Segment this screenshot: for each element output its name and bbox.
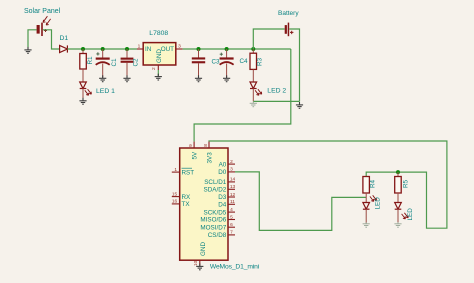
ground (C2) <box>123 75 130 81</box>
resistor R3 <box>250 49 257 82</box>
svg-text:Solar Panel: Solar Panel <box>24 8 61 15</box>
wire solar left to ground <box>28 30 37 47</box>
svg-text:Battery: Battery <box>278 10 299 17</box>
regulator U1 L7808 <box>137 43 183 70</box>
svg-text:R4: R4 <box>370 179 377 188</box>
svg-text:2: 2 <box>151 67 157 70</box>
svg-text:15: 15 <box>172 191 178 197</box>
svg-text:9: 9 <box>188 144 194 147</box>
svg-text:GND: GND <box>156 49 163 63</box>
svg-text:D4: D4 <box>218 202 227 209</box>
svg-text:1: 1 <box>174 167 177 173</box>
svg-text:3V3: 3V3 <box>206 152 213 164</box>
svg-text:LED: LED <box>407 208 414 221</box>
svg-text:14: 14 <box>230 177 236 183</box>
diode D1 <box>60 45 68 52</box>
ground (U2) <box>196 263 203 269</box>
solar panel PV1 <box>37 16 51 36</box>
svg-text:D0: D0 <box>218 169 227 176</box>
svg-text:R3: R3 <box>256 57 263 66</box>
svg-text:RX: RX <box>182 194 192 201</box>
svg-text:C4: C4 <box>240 58 249 65</box>
capacitor C3 <box>192 49 205 78</box>
capacitor C1 (polarized) <box>96 49 110 78</box>
wire rail diode to regulator IN <box>67 48 137 50</box>
svg-text:3: 3 <box>178 43 181 49</box>
wire D0 to LED chain <box>235 172 366 231</box>
svg-text:L7808: L7808 <box>149 30 168 37</box>
svg-text:LED: LED <box>375 197 382 210</box>
resistor R1 <box>80 49 87 82</box>
wire rail down to 5V feed <box>194 49 291 142</box>
svg-text:D1: D1 <box>60 35 69 42</box>
svg-text:C1: C1 <box>111 58 118 67</box>
pin name RST <box>182 168 195 176</box>
svg-text:6: 6 <box>230 222 233 228</box>
svg-text:1: 1 <box>138 43 141 49</box>
LED D3 (LED 2) <box>250 82 262 95</box>
svg-text:WeMos_D1_mini: WeMos_D1_mini <box>210 263 260 270</box>
wire regulator pin2 to ground <box>157 70 159 76</box>
svg-text:SDA/D2: SDA/D2 <box>204 187 227 194</box>
svg-text:5: 5 <box>230 214 233 220</box>
LED D5 <box>395 203 409 219</box>
svg-text:A0: A0 <box>219 161 227 168</box>
wire rail OUT to corner <box>183 48 291 50</box>
svg-text:13: 13 <box>230 184 236 190</box>
ground (C1) <box>99 75 106 81</box>
LED D4 <box>363 195 377 209</box>
capacitor C4 (polarized) <box>220 49 234 78</box>
junction at R5 top <box>396 170 400 174</box>
ground (C4) <box>223 75 230 81</box>
junction at C3 <box>197 47 201 51</box>
svg-text:2: 2 <box>230 159 233 165</box>
svg-text:SCL/D1: SCL/D1 <box>204 179 227 186</box>
svg-text:7: 7 <box>230 230 233 236</box>
ground (battery) <box>296 102 303 108</box>
ground (LED D5, pale) <box>394 222 401 227</box>
lead LED D5 to ground <box>397 209 399 223</box>
svg-text:GND: GND <box>200 242 207 256</box>
ground (LED 2, pale) <box>250 102 257 107</box>
lead LED1 to ground <box>82 89 84 101</box>
resistor R4 <box>363 177 370 203</box>
svg-text:5V: 5V <box>192 151 199 160</box>
svg-text:MISO/D6: MISO/D6 <box>200 217 226 224</box>
junction at C1 <box>101 47 105 51</box>
svg-text:D3: D3 <box>218 194 227 201</box>
svg-text:R1: R1 <box>87 56 94 65</box>
ground (solar) <box>24 47 31 53</box>
svg-text:IN: IN <box>145 46 152 53</box>
svg-text:TX: TX <box>182 201 191 208</box>
wire battery minus to ground <box>289 29 299 101</box>
svg-text:11: 11 <box>230 199 235 205</box>
lead LED2 to wire <box>252 89 254 102</box>
ground (C3) <box>195 75 202 81</box>
svg-text:LED 2: LED 2 <box>267 88 286 95</box>
svg-text:3: 3 <box>230 167 233 173</box>
svg-text:RST: RST <box>182 169 195 176</box>
junction at R3 and battery <box>251 47 255 51</box>
svg-text:C2: C2 <box>133 58 140 67</box>
svg-text:12: 12 <box>230 192 236 198</box>
svg-text:C3: C3 <box>212 59 221 66</box>
junction at C2 <box>125 47 129 51</box>
svg-text:R5: R5 <box>402 179 409 188</box>
resistor R5 <box>395 172 402 202</box>
module U2 WeMos D1 mini <box>172 142 235 267</box>
ground (U1) <box>155 74 162 80</box>
LED D2 (LED 1) <box>80 82 92 95</box>
wire battery plus drop <box>253 29 284 49</box>
svg-text:10: 10 <box>193 260 199 266</box>
svg-text:CS/D8: CS/D8 <box>208 232 227 239</box>
svg-text:4: 4 <box>230 207 233 213</box>
svg-text:LED 1: LED 1 <box>96 88 115 95</box>
wire 3V3 feed <box>209 141 447 228</box>
svg-text:MOSI/D7: MOSI/D7 <box>200 224 226 231</box>
wire LED2 cathode to battery minus <box>253 100 299 102</box>
svg-text:16: 16 <box>172 199 178 205</box>
junction at R1 <box>81 47 85 51</box>
junction at C4 <box>225 47 229 51</box>
ground (LED D4, pale) <box>363 222 370 227</box>
lead LED D4 to ground <box>365 209 367 223</box>
battery BT1 <box>285 23 294 37</box>
svg-text:SCK/D5: SCK/D5 <box>204 209 227 216</box>
wire solar right down to diode <box>43 30 60 49</box>
svg-text:8: 8 <box>203 144 209 147</box>
capacitor C2 <box>121 49 134 78</box>
ground (LED 1) <box>79 98 86 104</box>
